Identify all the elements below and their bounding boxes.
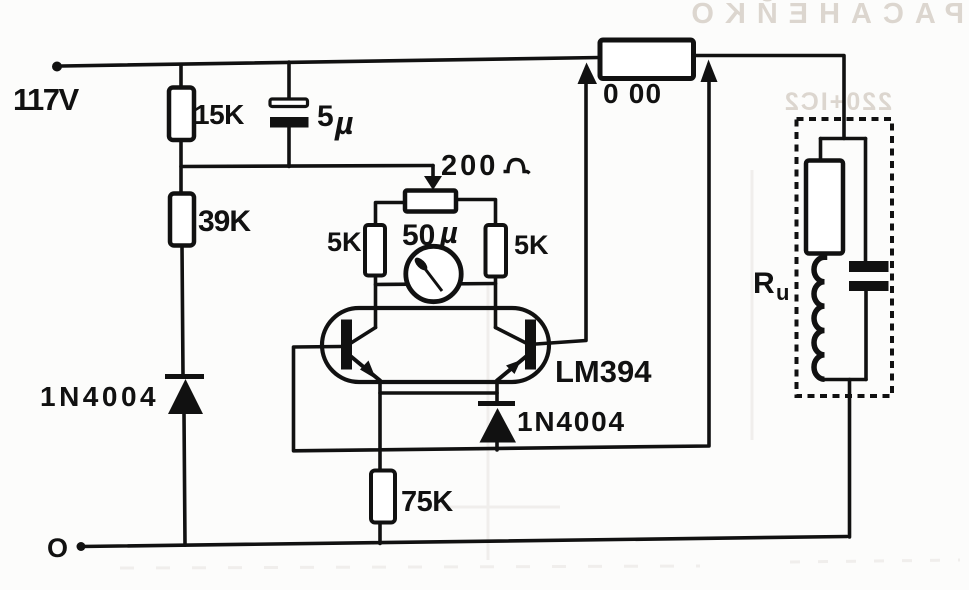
svg-text:µ: µ xyxy=(334,105,353,141)
svg-text:75K: 75K xyxy=(401,486,453,518)
svg-text:R: R xyxy=(753,267,775,300)
svg-text:PACAHEЙKO: PACAHEЙKO xyxy=(680,0,964,30)
svg-text:220+IC2: 220+IC2 xyxy=(783,88,892,116)
svg-text:5: 5 xyxy=(317,100,334,133)
svg-text:5K: 5K xyxy=(514,230,549,260)
svg-text:15K: 15K xyxy=(194,99,244,130)
svg-text:1N4004: 1N4004 xyxy=(517,406,626,437)
svg-text:39K: 39K xyxy=(198,205,251,238)
svg-text:1N4004: 1N4004 xyxy=(40,381,159,412)
svg-text:50: 50 xyxy=(402,219,435,252)
svg-text:117V: 117V xyxy=(13,82,80,117)
svg-text:200: 200 xyxy=(441,150,498,182)
svg-text:5K: 5K xyxy=(327,227,362,257)
svg-text:O: O xyxy=(47,533,68,563)
svg-text:µ: µ xyxy=(439,215,458,250)
svg-text:u: u xyxy=(776,280,789,305)
svg-text:LM394: LM394 xyxy=(555,354,652,389)
svg-text:0 00: 0 00 xyxy=(603,78,662,109)
